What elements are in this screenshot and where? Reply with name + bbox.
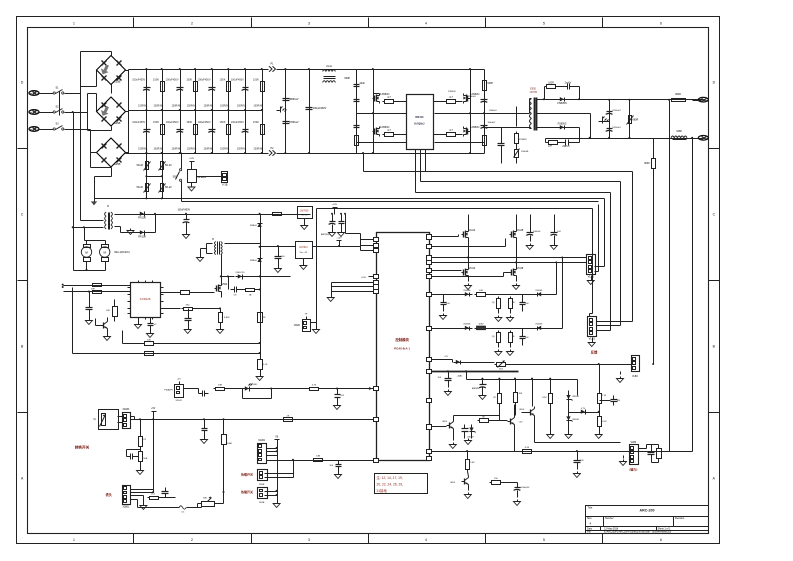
svg-text:100R: 100R bbox=[548, 83, 554, 85]
svg-text:T1K: T1K bbox=[602, 395, 606, 397]
svg-text:FR804: FR804 bbox=[250, 225, 257, 227]
svg-text:IR2110: IR2110 bbox=[415, 115, 424, 119]
svg-text:BAT(W)V: BAT(W)V bbox=[321, 233, 331, 236]
svg-text:1Q: 1Q bbox=[492, 336, 495, 338]
svg-text:10R: 10R bbox=[479, 290, 483, 292]
svg-text:960K: 960K bbox=[644, 162, 650, 165]
svg-text:150R/NL: 150R/NL bbox=[171, 105, 181, 108]
svg-text:40uF: 40uF bbox=[360, 82, 366, 85]
svg-text:+5(B): +5(B) bbox=[457, 375, 463, 377]
svg-text:IN4148: IN4148 bbox=[464, 324, 472, 326]
svg-text:VLB3: VLB3 bbox=[631, 442, 637, 444]
svg-text:FR106: FR106 bbox=[138, 234, 146, 238]
svg-text:1000uF: 1000uF bbox=[533, 231, 541, 233]
svg-text:KAQ8xJ: KAQ8xJ bbox=[414, 122, 425, 126]
svg-text:2mH: 2mH bbox=[326, 64, 332, 68]
svg-text:5: 5 bbox=[543, 538, 545, 542]
svg-text:4700uLV: 4700uLV bbox=[612, 110, 621, 112]
svg-text:10R2: 10R2 bbox=[479, 324, 485, 326]
svg-text:1: 1 bbox=[73, 21, 75, 25]
svg-text:150R/NL: 150R/NL bbox=[253, 105, 263, 108]
svg-text:5D-20: 5D-20 bbox=[136, 164, 143, 167]
svg-text:BBRMV: BBRMV bbox=[472, 388, 480, 390]
svg-text:热缩开关: 热缩开关 bbox=[241, 489, 253, 494]
svg-text:2C28: 2C28 bbox=[517, 266, 524, 270]
svg-text:100uF450V: 100uF450V bbox=[231, 121, 244, 124]
svg-text:1N60xV: 1N60xV bbox=[489, 110, 497, 112]
svg-text:5D-20: 5D-20 bbox=[165, 186, 172, 189]
svg-text:+24V: +24V bbox=[189, 158, 195, 160]
svg-text:6.2K: 6.2K bbox=[525, 447, 530, 449]
svg-text:100uF/450V: 100uF/450V bbox=[178, 210, 191, 212]
svg-text:X2L62: X2L62 bbox=[176, 400, 183, 402]
svg-text:150R/NL: 150R/NL bbox=[220, 148, 230, 151]
svg-text:5D-20: 5D-20 bbox=[136, 186, 143, 189]
svg-text:IN4148: IN4148 bbox=[464, 290, 472, 292]
svg-text:100uF450V: 100uF450V bbox=[166, 79, 179, 82]
svg-text:Vin +5: Vin +5 bbox=[301, 215, 308, 217]
svg-text:4.7: 4.7 bbox=[449, 95, 453, 99]
svg-text:1Q: 1Q bbox=[492, 302, 495, 304]
svg-text:+5V: +5V bbox=[177, 379, 181, 381]
svg-text:L/R16V: L/R16V bbox=[467, 437, 474, 439]
svg-text:6488: 6488 bbox=[676, 130, 682, 133]
svg-text:150K: 150K bbox=[220, 121, 226, 124]
svg-text:470R2K: 470R2K bbox=[519, 139, 527, 141]
svg-text:1500NL: 1500NL bbox=[521, 151, 529, 153]
svg-text:12-May-2018: 12-May-2018 bbox=[604, 527, 619, 530]
svg-text:150K: 150K bbox=[253, 121, 259, 124]
svg-text:IN4148: IN4148 bbox=[536, 324, 544, 326]
svg-text:5: 5 bbox=[543, 21, 545, 25]
svg-text:12N50C: 12N50C bbox=[470, 125, 480, 129]
svg-text:PS(B)PV: PS(B)PV bbox=[164, 390, 173, 392]
svg-text:4: 4 bbox=[425, 21, 427, 25]
svg-text:IN4148: IN4148 bbox=[536, 290, 544, 292]
svg-text:5D-20: 5D-20 bbox=[165, 164, 172, 167]
svg-text:150R/NL: 150R/NL bbox=[138, 105, 148, 108]
svg-text:FR804: FR804 bbox=[250, 260, 257, 262]
svg-text:2: 2 bbox=[191, 538, 193, 542]
svg-text:4C28: 4C28 bbox=[517, 228, 524, 232]
svg-text:150R/NL: 150R/NL bbox=[203, 148, 213, 151]
svg-text:15K: 15K bbox=[494, 478, 498, 480]
svg-text:FS805S: FS805S bbox=[557, 101, 567, 105]
svg-text:150R/NL: 150R/NL bbox=[153, 148, 163, 151]
svg-text:4700uLV: 4700uLV bbox=[612, 127, 621, 129]
svg-text:LM7812: LM7812 bbox=[299, 246, 308, 249]
svg-text:Date: Date bbox=[587, 527, 593, 530]
svg-text:50B: 50B bbox=[143, 458, 147, 460]
svg-text:100uF450V: 100uF450V bbox=[313, 106, 327, 110]
svg-text:10R: 10R bbox=[218, 385, 222, 387]
svg-text:S25B: S25B bbox=[114, 162, 121, 166]
svg-text:FR106: FR106 bbox=[138, 216, 146, 220]
svg-text:6: 6 bbox=[660, 538, 662, 542]
svg-text:4.1K: 4.1K bbox=[602, 421, 607, 423]
svg-text:Vin +12: Vin +12 bbox=[300, 252, 308, 254]
svg-text:150K: 150K bbox=[153, 79, 159, 82]
svg-text:470KaV: 470KaV bbox=[289, 120, 299, 124]
svg-text:Title: Title bbox=[588, 506, 593, 510]
svg-text:2: 2 bbox=[191, 21, 193, 25]
svg-text:4: 4 bbox=[425, 538, 427, 542]
svg-text:100uF450V: 100uF450V bbox=[198, 121, 211, 124]
svg-text:30K: 30K bbox=[519, 393, 523, 395]
svg-text:29K: 29K bbox=[91, 288, 95, 290]
svg-text:4.7: 4.7 bbox=[449, 128, 453, 132]
svg-text:热缩开关: 热缩开关 bbox=[241, 472, 253, 477]
svg-text:150K: 150K bbox=[220, 79, 226, 82]
svg-text:1: 1 bbox=[73, 538, 75, 542]
svg-text:8.2K: 8.2K bbox=[542, 397, 547, 399]
svg-text:150R/NL: 150R/NL bbox=[187, 148, 197, 151]
svg-text:2W4: 2W4 bbox=[222, 282, 228, 286]
svg-text:150R/NL: 150R/NL bbox=[138, 148, 148, 151]
svg-text:100uEV: 100uEV bbox=[488, 122, 496, 124]
svg-text:4.7V: 4.7V bbox=[581, 408, 586, 410]
svg-text:100uF450V: 100uF450V bbox=[231, 79, 244, 82]
svg-text:150K: 150K bbox=[186, 121, 192, 124]
svg-text:12N50C: 12N50C bbox=[448, 91, 456, 93]
svg-text:960R: 960R bbox=[675, 93, 681, 96]
svg-text:C3B: C3B bbox=[316, 456, 321, 458]
svg-text:150R/NL: 150R/NL bbox=[203, 105, 213, 108]
svg-text:X2LB1: X2LB1 bbox=[258, 440, 266, 442]
svg-text:FS805S: FS805S bbox=[558, 122, 567, 125]
svg-text:D88-C20: D88-C20 bbox=[236, 272, 246, 274]
svg-text:YB: YB bbox=[275, 436, 279, 439]
svg-text:X2LB3: X2LB3 bbox=[122, 409, 130, 411]
svg-text:X2B01: X2B01 bbox=[122, 507, 130, 509]
svg-text:+24V: +24V bbox=[332, 204, 338, 206]
svg-text:表头: 表头 bbox=[105, 492, 113, 497]
svg-text:100uF450V: 100uF450V bbox=[198, 79, 211, 82]
svg-text:注: 12, 14, 17, 19,: 注: 12, 14, 17, 19, bbox=[377, 475, 403, 480]
svg-text:YB1B: YB1B bbox=[259, 502, 265, 504]
svg-text:680R: 680R bbox=[632, 119, 638, 122]
svg-text:S25B: S25B bbox=[114, 80, 121, 84]
svg-text:0.1K: 0.1K bbox=[263, 364, 268, 366]
svg-text:12N50C: 12N50C bbox=[470, 92, 480, 96]
svg-text:20, 22, 24, 26, 29,: 20, 22, 24, 26, 29, bbox=[377, 483, 404, 487]
svg-text:KA3842B: KA3842B bbox=[140, 298, 151, 301]
svg-text:100TM: 100TM bbox=[530, 91, 537, 94]
svg-text:反馈: 反馈 bbox=[591, 350, 598, 355]
svg-text:960P: 960P bbox=[487, 82, 493, 85]
svg-text:YB1B: YB1B bbox=[259, 484, 265, 486]
svg-text:IN5248: IN5248 bbox=[572, 419, 579, 421]
svg-text:+5V: +5V bbox=[151, 408, 156, 410]
svg-text:ARC-200: ARC-200 bbox=[640, 509, 655, 513]
svg-text:YY1B: YY1B bbox=[222, 185, 228, 187]
svg-text:150R/NL: 150R/NL bbox=[153, 105, 163, 108]
svg-text:2C24: 2C24 bbox=[469, 266, 476, 270]
svg-text:1N40xV: 1N40xV bbox=[468, 96, 476, 98]
svg-text:SB2: SB2 bbox=[173, 177, 178, 179]
svg-text:VLB3: VLB3 bbox=[632, 376, 638, 378]
svg-text:6.81K: 6.81K bbox=[224, 317, 230, 319]
svg-text:LED: LED bbox=[253, 384, 258, 386]
svg-text:PG40 8rA 1: PG40 8rA 1 bbox=[394, 347, 410, 351]
svg-text:150K: 150K bbox=[153, 121, 159, 124]
svg-text:+2V: +2V bbox=[444, 356, 448, 358]
svg-text:150R/NL: 150R/NL bbox=[253, 148, 263, 151]
svg-text:+1000uFV: +1000uFV bbox=[520, 487, 530, 489]
svg-text:3: 3 bbox=[308, 21, 310, 25]
svg-text:100uF450V: 100uF450V bbox=[166, 121, 179, 124]
svg-text:3: 3 bbox=[308, 538, 310, 542]
svg-text:2xxKV: 2xxKV bbox=[565, 83, 572, 85]
svg-text:4.7: 4.7 bbox=[387, 95, 391, 99]
svg-text:50K: 50K bbox=[203, 498, 207, 500]
svg-text:Number: Number bbox=[605, 517, 614, 520]
svg-text:2245.V: 2245.V bbox=[562, 146, 570, 148]
svg-text:6: 6 bbox=[660, 21, 662, 25]
svg-text:10K: 10K bbox=[106, 310, 110, 312]
svg-text:IN5248: IN5248 bbox=[572, 396, 579, 398]
svg-text:+15V: +15V bbox=[361, 277, 367, 279]
svg-text:150R/NL: 150R/NL bbox=[237, 105, 247, 108]
svg-text:10R: 10R bbox=[548, 146, 553, 148]
svg-text:4.7K: 4.7K bbox=[312, 385, 317, 387]
svg-text:10K: 10K bbox=[147, 340, 151, 342]
svg-text:150R/NL: 150R/NL bbox=[237, 148, 247, 151]
svg-text:4C24: 4C24 bbox=[469, 228, 476, 232]
svg-text:150K: 150K bbox=[253, 79, 259, 82]
svg-text:REL 4(DC24V): REL 4(DC24V) bbox=[115, 252, 130, 254]
svg-text:E:\ARC200P2\ARC200-PCB\arc200-: E:\ARC200P2\ARC200-PCB\arc200-ddd.ddb - … bbox=[604, 531, 672, 534]
svg-text:LM7805: LM7805 bbox=[300, 210, 309, 213]
svg-text:S25B: S25B bbox=[114, 121, 121, 125]
svg-text:4.7: 4.7 bbox=[387, 128, 391, 132]
svg-text:150R/NL: 150R/NL bbox=[187, 105, 197, 108]
svg-text:Sheet 1 of 1: Sheet 1 of 1 bbox=[658, 527, 672, 530]
svg-text:150K: 150K bbox=[186, 79, 192, 82]
svg-text:转换开关: 转换开关 bbox=[75, 445, 90, 450]
svg-text:(输力): (输力) bbox=[629, 467, 637, 472]
svg-text:+12V: +12V bbox=[336, 238, 342, 240]
svg-text:100K: 100K bbox=[227, 443, 233, 445]
svg-text:450KaV: 450KaV bbox=[289, 97, 299, 101]
svg-text:150R/NL: 150R/NL bbox=[220, 105, 230, 108]
svg-text:100uF450V: 100uF450V bbox=[132, 121, 145, 124]
svg-text:Revision: Revision bbox=[675, 517, 685, 520]
svg-text:VR1B: VR1B bbox=[294, 325, 300, 327]
svg-text:960P: 960P bbox=[344, 77, 350, 80]
svg-text:100uF450V: 100uF450V bbox=[132, 79, 145, 82]
svg-text:31接地: 31接地 bbox=[377, 488, 388, 493]
svg-text:Size: Size bbox=[587, 517, 592, 520]
svg-text:控制模块: 控制模块 bbox=[395, 337, 409, 342]
svg-text:150R/NL: 150R/NL bbox=[171, 148, 181, 151]
svg-text:5.6K: 5.6K bbox=[470, 462, 475, 464]
